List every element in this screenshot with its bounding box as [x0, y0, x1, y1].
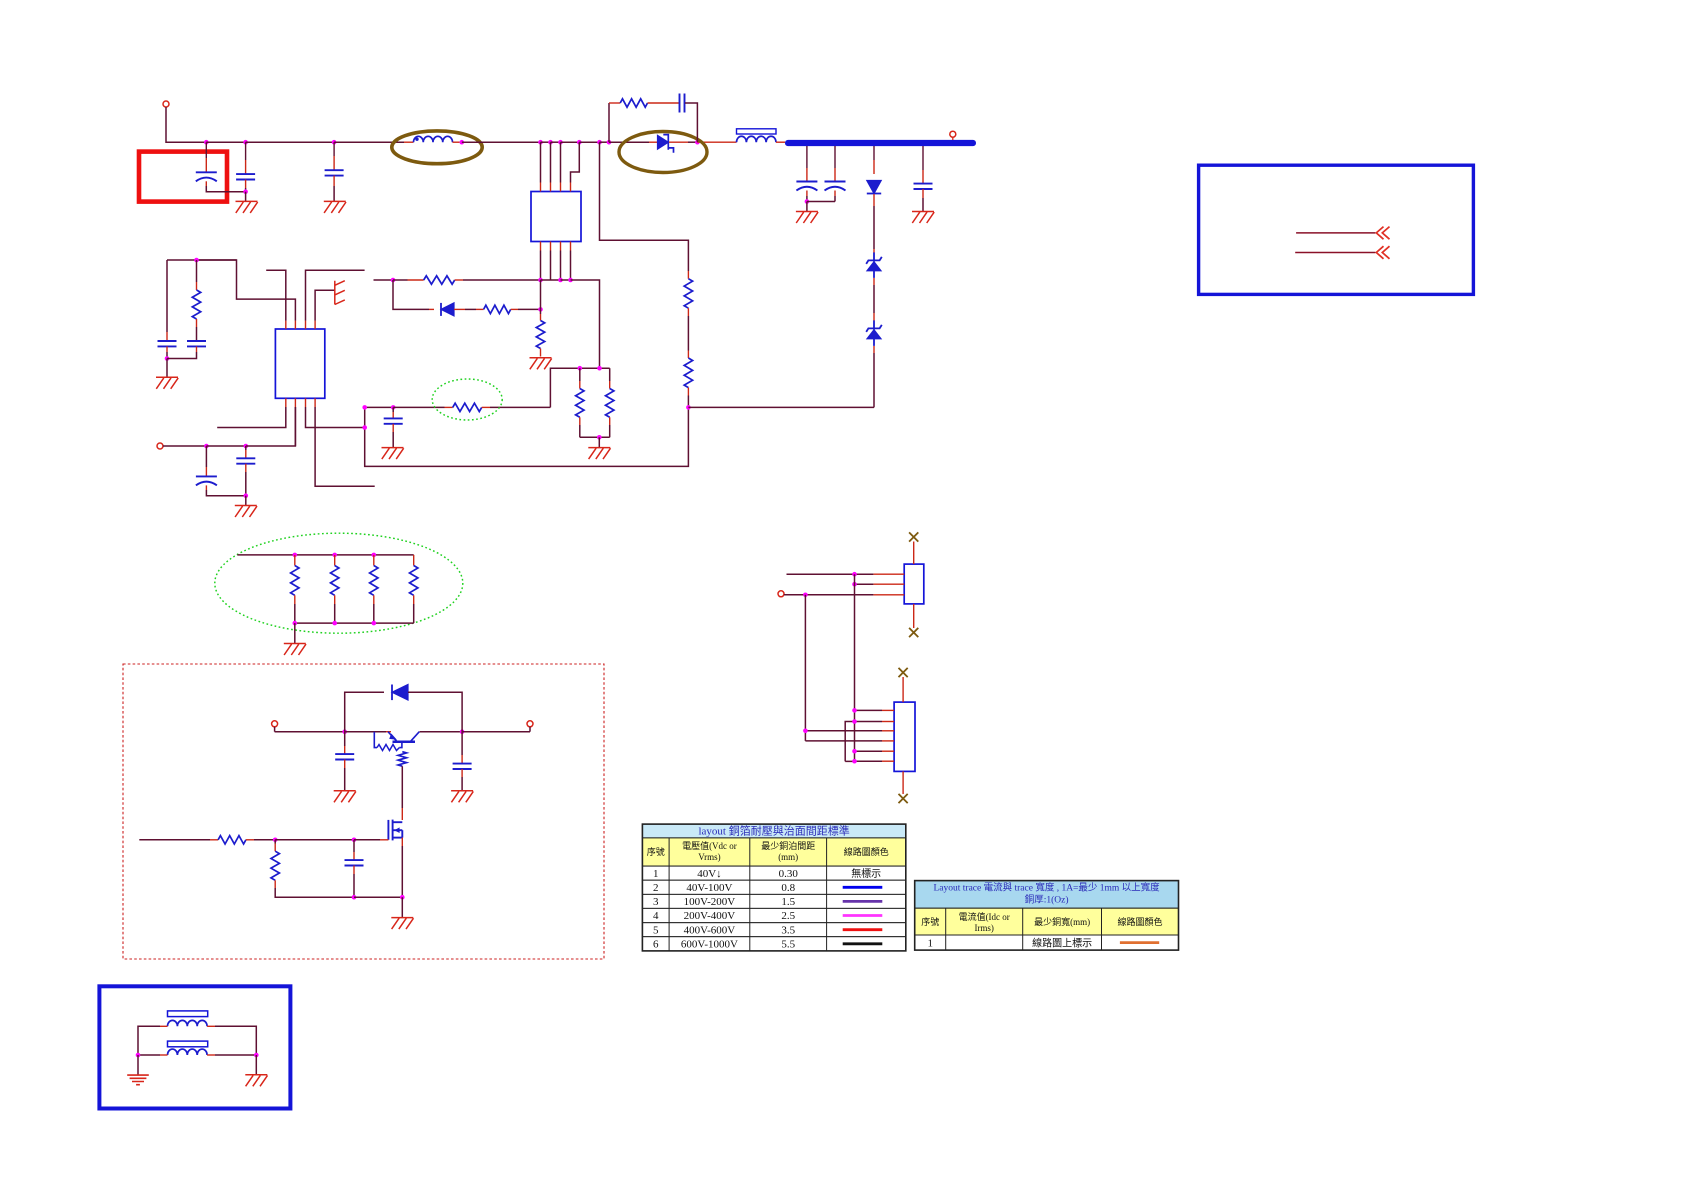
- node gate R22 tap: [273, 838, 278, 843]
- thick blue output bus bar: [785, 140, 976, 146]
- resistor R12: [484, 305, 511, 313]
- svg-text:4: 4: [653, 910, 659, 922]
- svg-text:0.30: 0.30: [779, 868, 799, 880]
- wire to port P2: [462, 731, 530, 733]
- capacitor C14: [345, 860, 364, 865]
- pin stub CN1 top: [913, 542, 915, 565]
- pin stub C10 bottom: [834, 191, 836, 197]
- ground under C12: [334, 791, 356, 803]
- wire R12 to junction: [518, 308, 541, 310]
- svg-text:2: 2: [653, 882, 659, 894]
- wire main line C3 to L1: [334, 141, 404, 143]
- svg-text:40V-100V: 40V-100V: [686, 882, 732, 894]
- node main line snubber left: [607, 140, 612, 145]
- capacitor C8: [236, 458, 255, 463]
- wire C12 lead: [344, 732, 346, 746]
- node bus pin3: [558, 278, 563, 283]
- port J3: [778, 591, 784, 597]
- pin stub U2 bottom pin3: [305, 398, 307, 407]
- pin stub CN2 pin4: [882, 740, 894, 742]
- wire main line D1 to junction: [688, 141, 697, 143]
- wire U2 pin4 to NC ground: [315, 290, 335, 320]
- table: layout trace width standard: [915, 881, 1179, 951]
- pin stub R12 right: [511, 308, 518, 310]
- node C9/C10 bottom: [805, 199, 810, 204]
- capacitor C1 (polarized, in red box): [196, 172, 217, 181]
- wire IC U1 bottom pin 4: [570, 251, 572, 281]
- pin stub R20 bottom: [294, 595, 296, 604]
- wire C5 bottom to junction: [167, 352, 197, 359]
- node CN2 pin5: [852, 749, 857, 754]
- wire C6 bottom: [206, 490, 245, 496]
- wire IC U1 bottom pin 1: [540, 251, 542, 281]
- pin stub CN2 bottom: [902, 771, 904, 794]
- resistor R19: [684, 358, 692, 388]
- wire CN2 pin6: [855, 760, 883, 762]
- pin stub R21 right: [246, 839, 254, 841]
- pin stub CN1 pin1: [873, 573, 904, 575]
- svg-text:layout 銅箔耐壓與治面間距標準: layout 銅箔耐壓與治面間距標準: [698, 824, 849, 838]
- wire CN2 pin4: [805, 740, 882, 742]
- callout arrowhead 2: [1376, 246, 1389, 259]
- inductor L1 (circled): [414, 136, 453, 142]
- wire C8 bottom: [245, 472, 247, 496]
- wire C11 tap: [922, 146, 924, 170]
- pin stub Z1 bottom: [873, 278, 875, 285]
- node source bus M1: [400, 895, 405, 900]
- pin stub CN1 pin3: [873, 594, 904, 596]
- wire M1 source down: [401, 846, 403, 897]
- ground under C4: [156, 377, 178, 389]
- ground under C7: [382, 448, 404, 460]
- callout line 2: [1295, 252, 1375, 254]
- svg-text:0.8: 0.8: [781, 882, 795, 894]
- node C1/C2 bottom junction: [243, 189, 248, 194]
- wire main line to D1: [609, 141, 649, 143]
- ground under C2: [236, 201, 258, 213]
- wire R array bottom bus: [295, 622, 414, 624]
- svg-text:無標示: 無標示: [851, 867, 881, 880]
- no-connect X above CN2: [899, 668, 908, 677]
- green dotted ellipse around R16: [432, 379, 502, 420]
- wire R23 bottom: [413, 604, 415, 623]
- wire RC network top: [167, 259, 237, 261]
- wire C11 to ground: [922, 198, 924, 211]
- wire feedback bus left dangling: [374, 279, 394, 281]
- pin stub R18 bottom: [687, 308, 689, 316]
- wire U2 bottom pin2 to port: [294, 407, 296, 446]
- resistor R17: [192, 290, 200, 319]
- node CN2 pin1: [852, 708, 857, 713]
- wire C4 bottom: [166, 352, 168, 359]
- pin stub L1 right: [453, 141, 460, 143]
- node L3/L4 left: [136, 1053, 141, 1058]
- node gate C14 tap: [352, 838, 357, 843]
- ground right in blue box: [245, 1075, 267, 1087]
- capacitor C11: [914, 184, 933, 189]
- port P2 in dashed box: [527, 721, 533, 727]
- pin stub R17 top: [196, 282, 198, 290]
- port J1 AC input: [163, 101, 169, 107]
- wire port J1 to main line: [166, 107, 206, 142]
- svg-text:600V-1000V: 600V-1000V: [681, 938, 738, 950]
- svg-text:Layout trace 電流與 trace 寬度 , 1A: Layout trace 電流與 trace 寬度 , 1A=最少 1mm 以上…: [934, 882, 1161, 894]
- node main line pin2 IC1: [548, 140, 553, 145]
- wire gate bus right: [354, 839, 380, 841]
- wire C7 to ground: [392, 432, 394, 447]
- pin stub U2 top pin3: [305, 321, 307, 329]
- pin stub L2 left: [697, 141, 736, 143]
- svg-text:序號: 序號: [921, 916, 939, 927]
- wire D3 to Z1: [873, 206, 875, 249]
- wire P1 to Q1: [275, 731, 345, 733]
- wire L4 left: [138, 1054, 160, 1056]
- zener Z1: [866, 252, 882, 278]
- resistor R16 (green circled): [453, 403, 482, 411]
- node bus pin4: [568, 278, 573, 283]
- wire junction right to diode chain: [688, 406, 874, 408]
- pin stub CN2 top: [902, 677, 904, 702]
- resistor R15: [606, 389, 614, 418]
- wire C3 to ground: [333, 186, 335, 201]
- wire R20 bottom: [294, 604, 296, 623]
- MOSFET M1: [388, 820, 402, 841]
- pin stub R11 right: [455, 279, 463, 281]
- pin stub C1 bottom: [205, 181, 207, 186]
- wire R19 bottom: [687, 396, 689, 408]
- diode D2: [441, 303, 454, 316]
- svg-text:1.5: 1.5: [781, 896, 795, 908]
- resistor R14: [576, 389, 584, 418]
- node J2 C8 tap: [244, 444, 249, 449]
- pin stub R17 bottom: [196, 319, 198, 327]
- wire C8 lead: [245, 446, 247, 450]
- capacitor C4: [158, 341, 177, 346]
- wire R21 bottom: [334, 604, 336, 623]
- pin stub CN1 bottom: [913, 604, 915, 628]
- node main line pin3 IC1: [558, 140, 563, 145]
- inductor L2: [737, 136, 777, 142]
- ground under resistor pair: [588, 448, 610, 460]
- port J2 (aux input): [157, 443, 163, 449]
- wire resistor pair bottom bus: [580, 436, 610, 438]
- resistor R22: [271, 851, 279, 880]
- wire main line L1 to IC1 pins: [462, 141, 541, 143]
- pin stub C6 bottom: [205, 485, 207, 490]
- resistor R snubber: [620, 99, 647, 107]
- wire CN1 pin2: [855, 583, 874, 585]
- pin stub U2 bottom pin2: [294, 398, 296, 407]
- wire L3 left leg: [138, 1026, 160, 1055]
- pin stub R16 left: [445, 406, 453, 408]
- pin stub C9 bottom: [806, 191, 808, 197]
- resistor R22 in array: [370, 566, 378, 596]
- node J2 C6 tap: [204, 444, 209, 449]
- wire snubber right leg: [685, 103, 697, 142]
- connector CN2: [894, 702, 915, 771]
- pin stub U2 bottom pin4: [314, 398, 316, 407]
- svg-text:400V-600V: 400V-600V: [684, 924, 736, 936]
- pin stub C11 bottom: [922, 189, 924, 198]
- pin stub Z2 top: [873, 313, 875, 321]
- no-connect X above CN1: [909, 532, 918, 541]
- wire main line: [579, 141, 599, 143]
- capacitor C6 (polarized): [196, 476, 217, 485]
- highlight ellipse around D1: [619, 132, 707, 173]
- wire junction to ground: [166, 359, 168, 378]
- pin stub C14 top: [353, 852, 355, 860]
- capacitor C snubber: [680, 94, 685, 113]
- resistor R21: [218, 836, 246, 844]
- pin stub R15 top: [609, 381, 611, 389]
- wire left to earth ground: [137, 1055, 139, 1075]
- node feedback bus junction: [391, 278, 396, 283]
- ground under M1: [391, 918, 413, 930]
- inductor L1 start curl: [415, 138, 418, 141]
- wire main line: [541, 141, 551, 143]
- pin stub C2 top: [245, 160, 247, 174]
- rotated ground symbol at U2 pin4: [335, 281, 345, 305]
- capacitor C5: [187, 341, 206, 346]
- wire diode loop left leg: [345, 692, 384, 731]
- wire CN2 pin3: [805, 730, 882, 732]
- wire C14 down: [353, 874, 355, 897]
- wire array to ground: [294, 623, 296, 643]
- pin stub CN2 pin1: [882, 709, 894, 711]
- wire C13 lead: [461, 732, 463, 755]
- wire U2 bottom pin4: [315, 407, 375, 486]
- svg-text:6: 6: [653, 938, 659, 950]
- node main line pin1 IC1: [538, 140, 543, 145]
- pin stub IC U1 bottom pin 2: [550, 242, 552, 251]
- node CN1 pin2 vertical: [852, 582, 857, 587]
- wire C2 bottom: [245, 188, 247, 192]
- pin stub M1 source: [401, 838, 403, 846]
- node CN2 pin3: [803, 729, 808, 734]
- svg-text:40V↓: 40V↓: [697, 868, 721, 880]
- node L3/L4 right: [254, 1053, 259, 1058]
- resistor R20 in array: [291, 566, 299, 596]
- pin stub L3 left: [160, 1025, 168, 1027]
- wire Z1 to Z2: [873, 285, 875, 313]
- pin stub U2 bottom pin1: [285, 398, 287, 407]
- wire R20 down: [401, 766, 403, 808]
- node bus pin1: [538, 278, 543, 283]
- pin stub C6 top: [205, 467, 207, 476]
- wire U2 bottom pin3 right: [306, 407, 365, 428]
- pin stub CN1 pin2: [873, 583, 904, 585]
- green dotted ellipse around R array: [215, 533, 463, 633]
- wire D2 to R12: [465, 308, 476, 310]
- node main line to R chain: [597, 140, 602, 145]
- pin stub C13 top: [461, 755, 463, 764]
- svg-text:Irms): Irms): [974, 923, 994, 933]
- wire C6 lead: [205, 446, 207, 467]
- pin stub Z2 bottom: [873, 346, 875, 353]
- svg-text:線路圖上標示: 線路圖上標示: [1032, 937, 1092, 950]
- pin stub L4 left: [160, 1054, 168, 1056]
- node loop left: [342, 729, 347, 734]
- svg-text:(mm): (mm): [778, 852, 798, 862]
- wire C10 bottom: [834, 196, 836, 202]
- node CN1 pin1 vertical: [852, 572, 857, 577]
- wire C14 lead: [353, 840, 355, 852]
- wire bus: [541, 279, 561, 281]
- ground under C3: [324, 201, 346, 213]
- node C4/C5 junction: [165, 356, 170, 361]
- pin stub IC U1 top pin 1: [540, 183, 542, 192]
- wire R17 to C5: [196, 327, 198, 341]
- pin stub R14 top: [579, 381, 581, 389]
- node source bus C14: [352, 895, 357, 900]
- node C6/C8 bottom: [244, 493, 249, 498]
- wire C1 tap: [205, 142, 207, 158]
- svg-text:最少銅寬(mm): 最少銅寬(mm): [1034, 916, 1090, 927]
- IC U1 switching regulator: [531, 192, 581, 242]
- wire IC U1 top pin 4 jog: [571, 142, 580, 182]
- pin stub R16 right: [482, 406, 490, 408]
- pin stub CN2 pin3: [882, 730, 894, 732]
- wire cap C7 lead: [392, 407, 394, 412]
- wire R array top bus: [237, 554, 413, 556]
- wire Z2 down to junction: [873, 360, 875, 407]
- pin stub R12 left: [476, 308, 484, 310]
- pin stub C9 top: [806, 168, 808, 182]
- node R array top 1: [293, 553, 298, 558]
- wire C2 tap: [245, 142, 247, 160]
- pin stub CN2 pin5: [882, 750, 894, 752]
- pin stub L2 right: [776, 141, 785, 143]
- pin stub Q1 emitter: [386, 731, 391, 733]
- wire IC U1 top pin 3: [560, 142, 562, 182]
- wire net 407: [393, 406, 444, 408]
- node 407 cap tap: [391, 405, 396, 410]
- callout arrowhead 1: [1376, 227, 1389, 240]
- ground under R array: [284, 644, 306, 656]
- ground under R13: [530, 358, 552, 370]
- pin stub C4 top: [166, 332, 168, 341]
- wire gate bus left: [139, 839, 210, 841]
- pin stub L3 right: [207, 1025, 215, 1027]
- pin stub Z1 top: [873, 249, 875, 253]
- pin stub R22 top: [274, 844, 276, 852]
- node loop right: [460, 729, 465, 734]
- pin stub R snubber left: [609, 102, 620, 104]
- pin stub U2 top pin2: [294, 321, 296, 329]
- port output on bus bar: [950, 131, 956, 137]
- pin stub R21 left: [210, 839, 218, 841]
- node R array bottom 1: [332, 621, 337, 626]
- wire junction col: [540, 280, 542, 309]
- pin stub C4 bottom: [166, 346, 168, 352]
- pin stub C10 top: [834, 168, 836, 182]
- svg-text:Vrms): Vrms): [698, 852, 720, 862]
- earth ground (bars) in blue box: [127, 1075, 149, 1085]
- pin stub L4 right: [207, 1054, 215, 1056]
- pin stub R11 left: [408, 279, 424, 281]
- wire source bus: [354, 896, 402, 898]
- pin stub U2 top pin1: [285, 321, 287, 329]
- wire: [345, 731, 386, 733]
- node pin3 wire to vertical: [362, 425, 367, 430]
- pin stub C13 bottom: [461, 769, 463, 777]
- resistor R base Q1: [377, 745, 399, 751]
- pin stub C8 top: [245, 450, 247, 458]
- wire IC U1 bottom pin 2: [550, 251, 552, 281]
- pin stub R22 bottom: [373, 595, 375, 604]
- svg-text:序號: 序號: [647, 846, 665, 857]
- wire diode loop right leg: [408, 692, 462, 731]
- blue box around chokes: [99, 986, 290, 1108]
- pin stub C11 top: [922, 170, 924, 184]
- svg-text:電壓值(Vdc or: 電壓值(Vdc or: [682, 840, 737, 851]
- pin stub C3 bottom: [333, 176, 335, 186]
- node main line junction C2: [243, 140, 248, 145]
- ground under C8: [235, 506, 257, 518]
- wire main line: [561, 141, 580, 143]
- wire C13 to ground: [461, 777, 463, 791]
- pin stub IC U1 bottom pin 4: [570, 242, 572, 251]
- pin stub D2 left: [429, 308, 434, 310]
- blue callout box top right: [1199, 165, 1474, 294]
- wire R17 top lead: [196, 260, 198, 282]
- svg-text:3.5: 3.5: [781, 924, 795, 936]
- svg-text:最少銅泊間距: 最少銅泊間距: [761, 840, 815, 851]
- pin stub C3 top: [333, 156, 335, 170]
- wire R21 to node: [254, 839, 275, 841]
- wire C9 bottom: [806, 196, 808, 202]
- zener Z2: [866, 320, 882, 346]
- wire Q1 right side: [420, 731, 463, 733]
- node 368 R14 top: [578, 366, 583, 371]
- no-connect X below CN1: [909, 628, 918, 637]
- wire net 407 right: [490, 406, 550, 408]
- pin stub IC U1 top pin 4: [570, 183, 572, 192]
- capacitor C9 (polarized): [796, 182, 817, 191]
- wire junction down to D2 row: [393, 280, 429, 309]
- diode D3: [867, 181, 881, 194]
- ground under C13: [451, 791, 473, 803]
- pin stub R21 top: [334, 555, 336, 566]
- capacitor C10 (polarized): [825, 182, 846, 191]
- wire port J2: [163, 445, 206, 447]
- wire CN2 pin2 with corner: [845, 722, 882, 762]
- inductor L2 core bar: [737, 129, 777, 134]
- wire main line: [600, 141, 610, 143]
- wire U2 bottom pin1 left: [217, 407, 286, 428]
- pin stub U2 top pin4: [314, 321, 316, 329]
- wire Z2 lower: [873, 353, 875, 360]
- pin stub R14 bottom: [579, 417, 581, 425]
- wire C3 tap: [333, 142, 335, 156]
- wire U2 pin1 up-left: [266, 270, 286, 320]
- pin stub R21 bottom: [334, 595, 336, 604]
- wire to U2 pin2: [246, 407, 296, 446]
- capacitor C7: [384, 418, 403, 423]
- wire RC left leg: [166, 260, 168, 332]
- pin stub R19 top: [687, 351, 689, 359]
- transistor Q1 (PNP pass): [374, 732, 419, 748]
- wire R15 bottom: [609, 425, 611, 437]
- node main line pin4 IC1 jog: [577, 140, 582, 145]
- svg-text:100V-200V: 100V-200V: [684, 896, 736, 908]
- wire L3 right leg: [215, 1026, 256, 1055]
- svg-text:線路圖顏色: 線路圖顏色: [844, 846, 889, 857]
- wire C9-C10 bottoms: [807, 201, 835, 203]
- resistor R18: [684, 279, 692, 309]
- wire: [206, 445, 245, 447]
- pin stub R15 bottom: [609, 417, 611, 425]
